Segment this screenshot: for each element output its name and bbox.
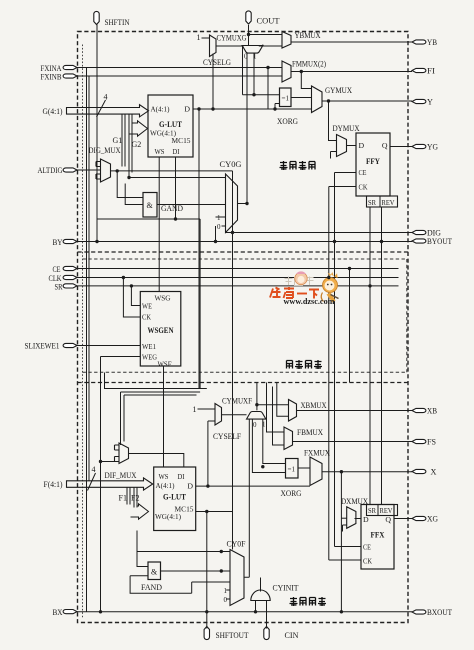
svg-text:CYSELF: CYSELF [213,432,241,441]
wire CY0F output [244,419,249,577]
wire X out [322,471,412,473]
wire FAND bottom input [130,575,148,577]
wire FMMUX branch to GYMUX [301,72,311,89]
svg-text:SHFTIN: SHFTIN [105,18,130,27]
wire CYMUXG out to carry mux [216,45,244,47]
svg-text:DI: DI [173,147,180,156]
bus width slash 4 (G) [97,100,106,117]
wire FFY CK feed [329,187,356,561]
svg-text:FMMUX(2): FMMUX(2) [292,60,326,69]
svg-text:Q: Q [382,141,388,150]
wire LUT to CY0F upper [137,531,230,552]
svg-text:CE: CE [53,265,61,274]
G-LUT box U-GLUT-TOP [148,95,193,157]
svg-text:BYOUT: BYOUT [427,237,452,246]
box FFX SR/REV [367,505,398,516]
svg-text:G2: G2 [132,140,142,149]
svg-text:CYMUXF: CYMUXF [222,397,252,406]
svg-text:WE: WE [142,302,152,311]
mux carry MUXCY top (under COUT) [242,46,263,54]
pad Y (right) [412,99,426,103]
svg-text:REV: REV [382,198,395,207]
svg-text:www.dzsc.com: www.dzsc.com [284,296,336,306]
svg-text:CK: CK [363,557,372,566]
svg-text:YB: YB [427,38,437,47]
wire Z to XBMUX [277,383,289,417]
svg-text:G-LUT: G-LUT [163,493,186,502]
wire FAND output [161,570,231,572]
watermark mascot small [295,271,307,284]
wire BX / BXOUT net [77,611,412,613]
wire GAND output [157,204,226,206]
gate XORG (=1) top [280,88,292,107]
pad FI (right) [412,68,426,72]
svg-text:FXMUX: FXMUX [304,449,330,458]
wire carry 0 down to XORG [252,419,285,472]
wire D to XOR region [193,108,312,110]
wire 1 to CYMUXG [202,38,244,109]
wire FBMUX input b [273,387,285,446]
gate XORG (=1) bottom [286,459,299,479]
wire CLK to WSGEN CK [123,278,140,318]
wire CLK bus [77,277,399,279]
svg-text:G(4:1): G(4:1) [43,107,63,116]
wire loop lower horiz [121,392,201,445]
svg-text:WG(4:1): WG(4:1) [155,512,181,521]
svg-text:D: D [359,141,365,150]
svg-text:FXINB: FXINB [41,72,62,81]
wire CE bus [77,268,399,270]
wire CYMUXF select chain [208,421,215,486]
wire GAND lower input [125,184,143,205]
svg-text:WS: WS [159,472,169,481]
wire SHFTIN vertical [96,25,98,242]
pad SHFTIN (top) [94,11,99,24]
svg-text:1: 1 [193,405,197,414]
wire D-chain long vertical [198,109,200,389]
wire CIN up [266,601,268,629]
svg-text:1: 1 [224,587,228,595]
svg-text:0: 0 [224,596,228,604]
pad BXOUT (right) [412,610,426,614]
wire DIG_MUX output [97,109,233,389]
wire mid trunk DI chain [199,219,201,389]
wire carry to XBMUX [257,404,289,406]
svg-text:BY: BY [53,238,63,247]
wire carry up [256,383,258,411]
gate GAND (&) [143,193,157,218]
flip-flop FFY [356,133,390,196]
svg-text:CE: CE [359,168,367,177]
flip-flop FFX [361,505,394,570]
svg-text:1: 1 [197,33,201,42]
wire FFY CE feed [329,173,382,561]
svg-text:A(4:1): A(4:1) [151,105,170,114]
wire CY0G output up carry [216,46,413,242]
label common logic (Chinese) [287,360,323,369]
wire FFX CE feed [335,546,362,548]
wire carry select [243,46,280,95]
bus G(4:1) arrow [67,105,149,117]
svg-text:D: D [363,515,369,524]
mux FBMUX [284,427,293,450]
bus tap F1 [127,487,130,504]
svg-text:GYMUX: GYMUX [325,86,352,95]
pad X (right) [412,469,426,473]
wire FFX Q to XG [394,518,412,520]
watermark ghost text [285,277,314,286]
svg-text:XB: XB [427,407,437,416]
svg-text:CY0F: CY0F [227,540,246,549]
svg-text:Q: Q [385,515,391,524]
svg-text:YBMUX: YBMUX [295,31,321,40]
label top module (Chinese) [280,161,316,170]
wire DXMUX to FFX D [355,518,362,520]
wire 1 to CYMUXF [198,408,216,410]
svg-text:4: 4 [92,465,96,474]
wire COUT up [248,25,250,46]
svg-text:WEG: WEG [142,353,157,362]
svg-text:WSGEN: WSGEN [148,326,174,335]
wire WSF down to F-LUT WS [163,366,165,467]
wire DIF_MUX out to DI [129,454,184,468]
wire WS chain down to WSGEN [158,157,160,292]
svg-text:1: 1 [253,53,257,61]
svg-text:0: 0 [253,421,257,429]
common module dashed bottom edge [83,371,407,373]
svg-text:ALTDIG: ALTDIG [38,166,63,175]
svg-text:SR: SR [368,506,377,515]
wire left trunk B [88,76,90,481]
svg-text:CYMUXG: CYMUXG [217,34,247,43]
svg-text:XBMUX: XBMUX [301,401,327,410]
wire FXINA net [77,67,282,69]
wire DIF select [101,461,115,463]
pad YG (right) [412,144,426,148]
wire FFY SR down [369,207,371,286]
svg-text:BXOUT: BXOUT [427,608,452,617]
wire lower loop [130,576,230,594]
wire FI output [291,71,412,73]
wire CYSELG select chain [212,54,214,110]
wire F-LUT D output [196,485,310,487]
mux carry MUXCY bottom [247,412,266,420]
wire FFY REV down [381,207,383,242]
wire YB output [291,41,412,43]
label bottom module (Chinese) [290,597,327,606]
svg-text:DI: DI [178,472,185,481]
wire FFX CK feed [329,559,361,561]
svg-text:XORG: XORG [277,117,298,126]
wire Y output [322,100,412,103]
svg-text:WSG: WSG [155,294,171,303]
svg-text:GAND: GAND [161,204,183,213]
pad XB (right) [412,408,426,412]
bus arrow into WG(4:1) [129,121,148,136]
wire XORG out [298,467,310,469]
svg-text:SR: SR [368,198,377,207]
pad FS (right) [412,439,426,443]
svg-text:&: & [151,568,158,577]
svg-text:DIF_MUX: DIF_MUX [105,471,137,480]
wire DIG output line [226,232,413,234]
bus tap G2 [129,114,132,177]
wire XB out [297,410,413,412]
top/common module dashed separator upper [78,251,409,253]
wire CY0G 1-0 feed [216,217,226,242]
svg-text:D: D [187,482,193,491]
svg-text:SHFTOUT: SHFTOUT [216,631,249,640]
svg-text:A(4:1): A(4:1) [156,481,175,490]
wire ALTDIG to DIG_MUX [77,169,100,171]
inner left dashed guide line [82,45,84,619]
svg-text:DYMUX: DYMUX [333,124,360,133]
mux XBMUX [289,400,297,422]
svg-text:XG: XG [427,515,438,524]
wire FBMUX input a [267,383,285,433]
svg-text:F1: F1 [119,494,127,503]
bus F(4:1) arrow [67,478,153,490]
svg-text:FBMUX: FBMUX [297,428,323,437]
svg-text:=1: =1 [282,95,290,103]
svg-text:CE: CE [363,543,371,552]
wire SLIXEWE1 to WE1 [77,345,140,347]
wire CYINIT output [260,578,262,592]
svg-text:WS: WS [155,147,165,156]
outer slice dashed frame [78,32,409,623]
svg-text:COUT: COUT [257,17,280,26]
svg-text:4: 4 [104,93,108,102]
svg-text:CK: CK [359,183,368,192]
svg-text:F2: F2 [131,494,139,503]
wire FS out [293,441,413,443]
svg-text:CIN: CIN [285,631,299,640]
pad CIN (bottom) [264,627,269,640]
wire FFY Q to YG [390,146,412,148]
wire DI down [175,157,177,219]
svg-text:WE1: WE1 [142,342,156,351]
gate FAND (&) [148,562,161,580]
common module dashed right edge [406,259,408,372]
pad SHFTOUT (bottom) [204,627,209,640]
bus width slash 4 (F) [88,473,96,491]
wire XORG output to GYMUX [291,97,312,99]
pad XG (right) [412,516,426,520]
wire XORG inputs [193,68,312,110]
svg-text:Y: Y [427,98,433,107]
wire MC15 shift chain down to SHFTOUT [206,512,208,629]
pad YB (right) [412,40,426,44]
svg-text:CYINIT: CYINIT [273,584,299,593]
box FFY SR/REV [367,196,398,207]
lut F (G-LUT) box [154,467,196,531]
svg-text:0: 0 [244,53,248,61]
svg-text:YG: YG [427,143,438,152]
svg-text:D: D [184,105,190,114]
svg-text:XORG: XORG [281,489,302,498]
wire FFX SR feed [350,242,382,505]
svg-text:G1: G1 [113,136,123,145]
watermark red text [270,287,319,299]
wire MC15 output [196,511,233,513]
svg-text:REV: REV [380,506,393,515]
pad BYOUT (right) [412,239,426,243]
wire BY / BYOUT net [77,241,412,243]
wire mid trunk carry chain [232,171,234,550]
wire WEG feed [101,357,141,612]
svg-text:FS: FS [427,438,436,447]
block WSGEN [140,292,181,367]
svg-text:CK: CK [142,313,151,322]
svg-text:F(4:1): F(4:1) [44,480,63,489]
svg-text:BX: BX [53,608,63,617]
wire YBMUX inputs [249,35,413,47]
wire shift loop lower [97,218,200,220]
wire CYINIT input from BX [255,601,257,612]
wire carry 1 down to XORG [263,419,286,463]
svg-text:1: 1 [217,214,221,222]
wire CYMUXF out [222,414,247,416]
pad DIG (right) [412,230,426,234]
wire left trunk A [86,68,88,612]
svg-text:SR: SR [55,282,63,291]
wire G2 to CY0G [129,177,226,179]
svg-text:WSF: WSF [158,360,173,369]
wire GYMUX to DYMUX [329,101,357,159]
bus tap G1 [122,114,125,166]
common module dashed top edge [83,258,407,260]
svg-text:0: 0 [217,223,221,231]
svg-text:FI: FI [427,67,435,76]
wire X to DXMUX/BXOUT [341,472,346,612]
svg-text:FFY: FFY [366,157,380,166]
wire DYMUX to FFY D [347,145,357,147]
wire SR to WSGEN WE [131,286,140,306]
wire loop upper horiz [105,373,207,389]
svg-text:&: & [147,201,154,210]
mux YBMUX [282,32,291,49]
wire CE branch stub [349,268,351,382]
svg-text:CYSELG: CYSELG [203,58,231,67]
svg-text:SLIXEWE1: SLIXEWE1 [25,342,60,351]
wire FAND top input [137,552,148,567]
wire FFX REV feed [381,242,383,505]
wire FXINB net [77,75,282,77]
wire SR bus [77,285,399,287]
bottom module dashed top edge [78,382,409,384]
pad COUT (top) [246,11,251,24]
mux FMMUX [282,61,291,82]
bus arrow into WG(4:1) bottom [131,504,149,519]
bus tap F2 [134,487,137,507]
svg-text:CY0G: CY0G [220,160,242,169]
svg-text:X: X [431,468,437,477]
mux GYMUX [312,86,323,113]
svg-text:DIG_MUX: DIG_MUX [89,146,121,155]
svg-text:MC15: MC15 [172,136,191,145]
svg-text:=1: =1 [288,466,296,474]
watermark mascot big [321,272,338,303]
svg-text:FFX: FFX [371,531,385,540]
svg-text:FAND: FAND [141,583,162,592]
